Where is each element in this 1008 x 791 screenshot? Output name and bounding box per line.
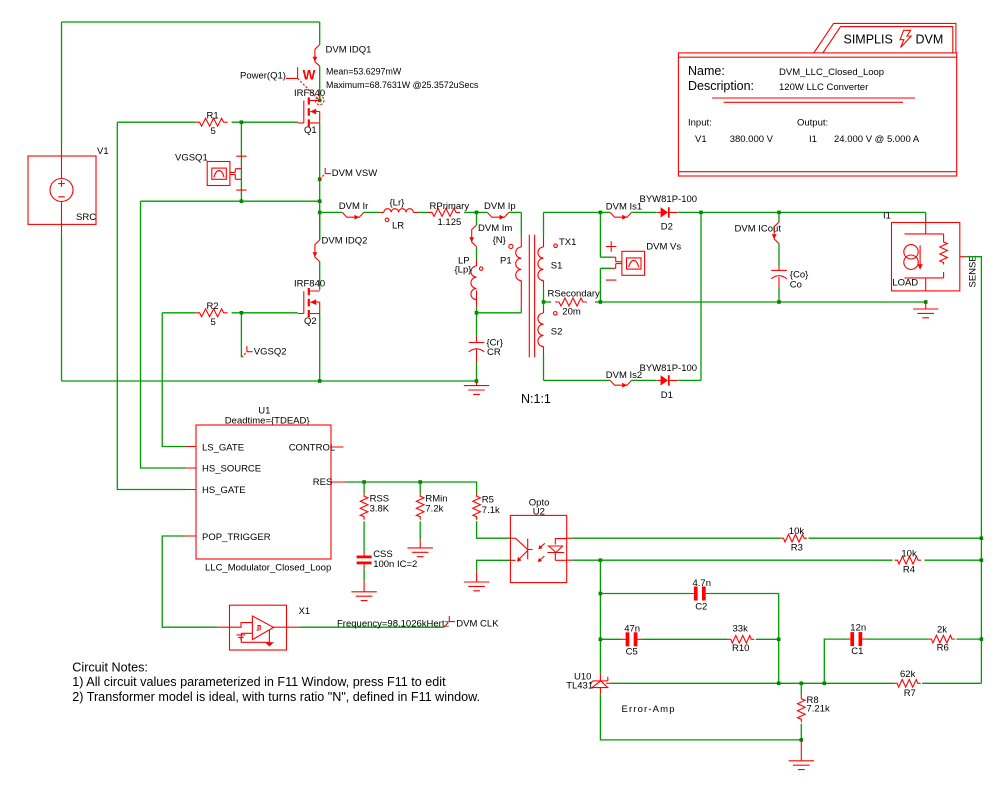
svg-text:DVM ICout: DVM ICout: [735, 223, 782, 234]
wire LP bottom to P1 bottom: [477, 312, 522, 314]
svg-text:POP_TRIGGER: POP_TRIGGER: [202, 532, 271, 543]
inductor LR: [379, 209, 418, 213]
wire R2 left: [162, 312, 195, 314]
svg-text:R7: R7: [904, 688, 916, 699]
wire RPrimary right to Ip node: [464, 211, 487, 213]
svg-text:LLC_Modulator_Closed_Loop: LLC_Modulator_Closed_Loop: [205, 562, 331, 573]
svg-text:S1: S1: [551, 261, 563, 272]
wire R5 to opto anode: [477, 521, 511, 538]
wire R1 right to Q1 gate: [232, 121, 298, 123]
wire X1 output to DVM CLK: [299, 626, 444, 628]
svg-text:Input:: Input:: [688, 118, 712, 129]
svg-text:12n: 12n: [850, 622, 866, 633]
inductor LP: [471, 260, 477, 313]
wire C2 net: [600, 594, 778, 640]
svg-text:DVM CLK: DVM CLK: [456, 618, 499, 629]
diode D1 BYW81P-100: [657, 375, 678, 385]
capacitor Co: [771, 266, 787, 302]
svg-text:24.000 V @ 5.000 A: 24.000 V @ 5.000 A: [834, 134, 920, 145]
wire LR to RPrimary: [418, 211, 428, 213]
ground RMin: [408, 521, 433, 556]
svg-text:R1: R1: [207, 110, 219, 121]
source VGSQ1: [207, 156, 246, 190]
svg-text:7.2k: 7.2k: [425, 503, 443, 514]
svg-text:I1: I1: [809, 134, 817, 145]
resistor R3: [781, 534, 808, 542]
svg-text:DVM_LLC_Closed_Loop: DVM_LLC_Closed_Loop: [779, 67, 884, 78]
svg-text:33k: 33k: [733, 624, 749, 635]
svg-text:DVM Is1: DVM Is1: [606, 201, 642, 212]
capacitor C1: [847, 632, 866, 646]
svg-text:Mean=53.6297mW: Mean=53.6297mW: [326, 67, 402, 77]
probe DVM CLK: [444, 616, 455, 627]
svg-text:1) All circuit values paramete: 1) All circuit values parameterized in F…: [72, 675, 446, 689]
svg-text:DVM Im: DVM Im: [478, 223, 512, 234]
svg-text:SENSE: SENSE: [968, 255, 979, 287]
svg-text:S2: S2: [551, 326, 563, 337]
TL431 U10: [590, 674, 608, 695]
wire opto collector to R3: [572, 537, 780, 539]
svg-text:120W LLC Converter: 120W LLC Converter: [779, 82, 868, 93]
wire D1 branch vertical: [700, 212, 702, 380]
svg-text:2k: 2k: [937, 625, 947, 636]
node RSecondary Vs return: [599, 300, 603, 304]
wire POP_TRIGGER to X1: [162, 536, 218, 627]
svg-text:SRC: SRC: [76, 212, 96, 223]
node RSS tap: [362, 480, 366, 484]
node R2 VGSQ2 junction: [240, 311, 244, 315]
wire V1- down to 0V rail: [61, 235, 63, 381]
svg-text:BYW81P-100: BYW81P-100: [640, 363, 698, 374]
svg-text:C2: C2: [695, 602, 707, 613]
IC U1 LLC modulator box: [186, 425, 346, 559]
svg-text:LR: LR: [392, 221, 404, 232]
node C2R10 TL431: [777, 682, 781, 686]
svg-text:{Lp}: {Lp}: [455, 264, 472, 275]
node R1 VGSQ1 junction: [240, 120, 244, 124]
svg-text:DVM VSW: DVM VSW: [332, 168, 377, 179]
svg-text:62k: 62k: [900, 669, 916, 680]
logo lightning bolt: [900, 30, 911, 47]
node load ground: [924, 300, 928, 304]
svg-text:7.21k: 7.21k: [807, 704, 830, 715]
svg-text:R4: R4: [903, 565, 915, 576]
node LP tap top: [475, 211, 479, 215]
wire C2R10 down to TL431 net: [778, 639, 780, 683]
wire R7 to SENSE corner: [922, 682, 981, 684]
capacitor C5: [622, 632, 641, 646]
ground primary: [464, 381, 489, 394]
node VGSQ1 bottom mid-rail: [240, 199, 244, 203]
svg-text:R3: R3: [791, 543, 803, 554]
svg-text:DVM Ir: DVM Ir: [339, 201, 369, 212]
resistor RMin: [416, 493, 424, 520]
svg-text:380.000 V: 380.000 V: [730, 134, 774, 145]
voltage source V1: [28, 146, 96, 234]
svg-text:Circuit Notes:: Circuit Notes:: [72, 660, 148, 674]
node DVM Vs tap: [599, 211, 603, 215]
svg-text:BYW81P-100: BYW81P-100: [640, 194, 698, 205]
svg-text:R2: R2: [207, 301, 219, 312]
probe DVM Vs: [600, 212, 644, 302]
svg-text:DVM Is2: DVM Is2: [606, 370, 642, 381]
load I1: [892, 223, 967, 291]
wire RES net: [346, 482, 477, 493]
resistor R1: [196, 118, 228, 126]
wire mid rail (VSW): [141, 200, 320, 202]
wire R1 left: [117, 121, 195, 123]
wire error amp bottom: [600, 694, 801, 740]
svg-text:HS_GATE: HS_GATE: [202, 485, 246, 496]
svg-text:DVM Vs: DVM Vs: [646, 242, 681, 253]
node ICout tap: [777, 211, 781, 215]
wire Q1 source to switch node: [319, 123, 321, 201]
node switch VSW probe tap: [318, 177, 322, 181]
current probe DVM ICout: [772, 212, 779, 266]
svg-text:DVM IDQ1: DVM IDQ1: [326, 44, 372, 55]
svg-text:C1: C1: [851, 646, 863, 657]
ground opto: [464, 572, 489, 591]
red pin stub X1 output: [287, 626, 299, 628]
svg-text:Frequency=98.1026kHertz: Frequency=98.1026kHertz: [337, 618, 449, 629]
svg-text:R6: R6: [937, 643, 949, 654]
svg-text:RES: RES: [313, 477, 333, 488]
svg-text:DVM Ip: DVM Ip: [484, 201, 516, 212]
wire feedback vertical: [599, 560, 601, 674]
winding P1: [516, 212, 522, 312]
ground CSS: [351, 581, 376, 601]
capacitor C2: [690, 587, 709, 601]
resistor RSecondary: [544, 298, 601, 306]
resistor RSS: [360, 493, 368, 520]
resistor R2: [196, 309, 228, 317]
wire opto cathode to ground: [477, 560, 511, 571]
winding S1: [538, 212, 544, 302]
wire R2 right to Q2 gate: [232, 312, 298, 314]
wire output return rail: [600, 301, 925, 303]
capacitor CSS: [357, 551, 372, 580]
svg-text:47n: 47n: [624, 624, 640, 635]
double underline: [712, 98, 915, 102]
wire TL431 ref net: [611, 682, 894, 684]
svg-text:LOAD: LOAD: [892, 278, 918, 289]
svg-text:X1: X1: [299, 606, 311, 617]
svg-text:IRF840: IRF840: [294, 278, 325, 289]
svg-text:DVM: DVM: [916, 33, 944, 47]
node secondary centre tap: [542, 300, 546, 304]
node RMin tap: [418, 480, 422, 484]
ground error amp: [789, 740, 814, 770]
resistor R4: [895, 556, 922, 564]
wire primary 0V rail: [62, 380, 477, 382]
pin dot RSecondary: [554, 312, 558, 316]
svg-text:RSecondary: RSecondary: [548, 289, 601, 300]
svg-text:RPrimary: RPrimary: [430, 201, 470, 212]
svg-text:P1: P1: [500, 255, 512, 266]
svg-text:5: 5: [211, 126, 216, 137]
pin dot N: [509, 244, 513, 248]
wire secondary bottom rail: [544, 379, 702, 381]
resistor RPrimary: [428, 208, 460, 216]
node Q1 drain power-probe point: [315, 96, 324, 105]
node opto feedback tap: [599, 558, 603, 562]
resistor R7: [894, 680, 921, 688]
transistor Q2 IRF840: [298, 288, 320, 317]
wire LS_GATE vertical: [162, 313, 186, 447]
svg-text:CR: CR: [487, 347, 501, 358]
pin dot LR: [385, 218, 389, 222]
node C1 branch: [823, 682, 827, 686]
wire R3 to SENSE: [809, 537, 982, 539]
svg-text:TX1: TX1: [559, 237, 576, 248]
svg-text:IRF840: IRF840: [294, 88, 325, 99]
DVM info box: [678, 53, 956, 176]
wire Q2 source down: [319, 314, 321, 382]
SIMPLIS DVM banner: [814, 23, 956, 53]
diode D2 BYW81P-100: [657, 207, 678, 217]
wire C5 R10 net: [600, 638, 778, 640]
svg-text:2) Transformer model is ideal,: 2) Transformer model is ideal, with turn…: [72, 690, 480, 704]
transformer core TX1: [529, 235, 534, 357]
current probe DVM Im: [469, 212, 476, 259]
svg-text:LS_GATE: LS_GATE: [202, 442, 244, 453]
svg-text:3.8K: 3.8K: [370, 503, 390, 514]
pin dot TX1: [554, 244, 558, 248]
svg-text:20m: 20m: [562, 307, 581, 318]
node Q2 source rail: [318, 379, 322, 383]
svg-text:{N}: {N}: [493, 235, 506, 246]
current probe DVM Is2: [610, 380, 632, 387]
svg-text:R10: R10: [732, 643, 749, 654]
current probe DVM IDQ1: [313, 22, 320, 99]
red pin stub X1 input: [218, 626, 230, 628]
svg-text:100n IC=2: 100n IC=2: [373, 559, 417, 570]
svg-text:I1: I1: [883, 211, 891, 222]
wire R4 to SENSE: [925, 559, 982, 561]
svg-text:N:1:1: N:1:1: [521, 392, 551, 406]
svg-text:{Lr}: {Lr}: [390, 197, 405, 208]
wire SENSE vertical: [966, 257, 981, 684]
node R8 top: [800, 682, 804, 686]
svg-text:VGSQ1: VGSQ1: [175, 152, 208, 163]
wire C1 branch: [824, 639, 981, 683]
node R4 SENSE: [980, 558, 984, 562]
svg-text:4.7n: 4.7n: [693, 578, 712, 589]
wire switch node down to tank tap: [319, 201, 321, 240]
wire VGSQ1 vertical: [240, 122, 242, 201]
svg-text:Maximum=68.7631W @25.3572uSecs: Maximum=68.7631W @25.3572uSecs: [326, 80, 479, 90]
node Co bottom: [777, 300, 781, 304]
node LP bottom: [475, 311, 479, 315]
svg-text:5: 5: [211, 317, 216, 328]
svg-text:7.1k: 7.1k: [482, 505, 500, 516]
svg-text:TL431: TL431: [566, 681, 593, 692]
svg-text:Co: Co: [790, 279, 802, 290]
optocoupler U2: [510, 515, 566, 582]
node C5 tap: [599, 638, 603, 642]
red stub TL431 ref: [606, 682, 611, 684]
node D1 branch top: [699, 211, 703, 215]
node C2 tap: [599, 592, 603, 596]
svg-text:10k: 10k: [789, 526, 805, 537]
svg-text:Name:: Name:: [688, 64, 725, 78]
ground secondary: [913, 302, 938, 318]
current probe DVM IDQ2: [313, 212, 320, 290]
svg-text:Q1: Q1: [304, 125, 317, 136]
svg-text:C5: C5: [626, 647, 638, 658]
svg-text:W: W: [303, 68, 316, 83]
wire secondary top rail: [544, 212, 926, 222]
resistor R8: [798, 683, 806, 740]
node R10 C2 join: [777, 638, 781, 642]
node R6 SENSE: [980, 637, 984, 641]
power probe Power(Q1): [240, 67, 319, 100]
subcircuit X1 clock: [230, 605, 287, 650]
svg-text:Output:: Output:: [797, 118, 828, 129]
node tank branch tap: [318, 211, 322, 215]
node R3 SENSE: [980, 536, 984, 540]
node mid rail at Q1 source: [318, 199, 322, 203]
svg-text:V1: V1: [97, 146, 109, 157]
wire RMin top: [419, 482, 421, 493]
node CR rail: [475, 379, 479, 383]
svg-text:DVM IDQ2: DVM IDQ2: [322, 235, 368, 246]
wire HS_GATE vertical: [117, 122, 186, 489]
winding S2: [538, 302, 544, 380]
svg-text:Q2: Q2: [304, 316, 317, 327]
current probe DVM Is1: [610, 212, 632, 219]
svg-text:Power(Q1): Power(Q1): [240, 70, 286, 81]
svg-text:D1: D1: [661, 390, 673, 401]
svg-text:VGSQ2: VGSQ2: [254, 346, 287, 357]
svg-text:HS_SOURCE: HS_SOURCE: [202, 464, 261, 475]
node R8 bottom: [800, 738, 804, 742]
probe DVM VSW: [320, 168, 331, 179]
probe VGSQ2: [241, 346, 252, 357]
wire tank branch with DVM Ir probe: [320, 212, 380, 219]
svg-text:Description:: Description:: [688, 79, 754, 93]
wire opto emitter to R4: [572, 559, 892, 561]
svg-text:CONTROL: CONTROL: [289, 442, 335, 453]
wire RSS to CSS: [363, 521, 365, 551]
wire top rail V1+ to Q1 drain: [62, 22, 320, 146]
capacitor CR: [469, 313, 485, 381]
svg-text:10k: 10k: [901, 548, 917, 559]
wire VGSQ2 stub: [240, 313, 242, 358]
wire RSS top: [363, 482, 365, 493]
svg-text:V1: V1: [695, 134, 707, 145]
svg-text:D2: D2: [661, 221, 673, 232]
svg-text:1.125: 1.125: [438, 217, 462, 228]
svg-text:Error-Amp: Error-Amp: [622, 704, 676, 715]
pin dot LP: [480, 267, 483, 270]
resistor R10: [728, 636, 755, 644]
svg-text:SIMPLIS: SIMPLIS: [844, 33, 893, 47]
wire HS_SOURCE vertical: [141, 201, 187, 468]
transistor Q1 IRF840: [298, 97, 320, 126]
resistor R6: [928, 635, 955, 643]
current probe DVM Ip: [487, 212, 521, 219]
red pin stubs opto right: [567, 538, 573, 560]
resistor R5: [473, 493, 481, 520]
